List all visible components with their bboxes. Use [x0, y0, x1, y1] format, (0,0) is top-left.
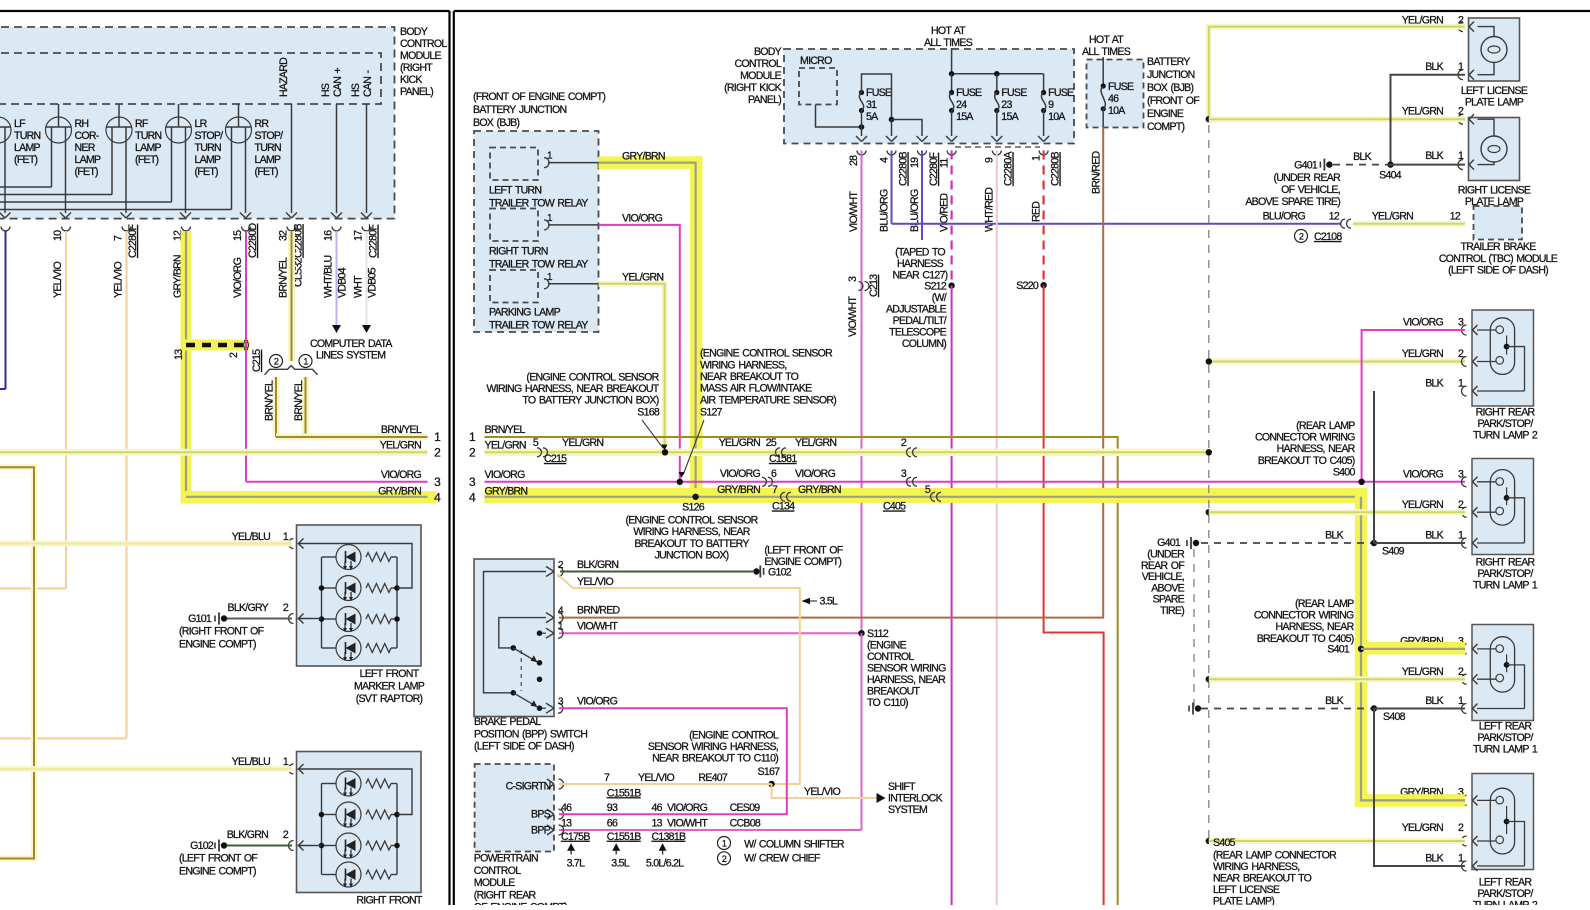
svg-text:BLK: BLK	[1325, 695, 1343, 707]
svg-text:TURN: TURN	[195, 142, 222, 154]
svg-text:12: 12	[1329, 211, 1340, 223]
svg-text:(LEFT FRONT OF: (LEFT FRONT OF	[179, 853, 258, 865]
svg-text:2: 2	[283, 602, 289, 614]
svg-text:POSITION (BPP) SWITCH: POSITION (BPP) SWITCH	[474, 728, 587, 740]
svg-text:C2280A: C2280A	[1003, 151, 1015, 186]
svg-text:3.7L: 3.7L	[567, 858, 585, 870]
svg-text:WIRING HARNESS,: WIRING HARNESS,	[1213, 861, 1299, 873]
svg-text:RIGHT REAR: RIGHT REAR	[1476, 407, 1536, 419]
svg-text:(UNDER REAR: (UNDER REAR	[1273, 172, 1341, 184]
svg-text:RIGHT LICENSE: RIGHT LICENSE	[1458, 185, 1531, 197]
svg-text:BLU/ORG: BLU/ORG	[909, 189, 921, 232]
svg-text:7: 7	[113, 235, 125, 241]
svg-text:LAMP: LAMP	[75, 154, 102, 166]
svg-text:VIO/RED: VIO/RED	[939, 193, 951, 232]
svg-text:12: 12	[1450, 211, 1461, 223]
svg-text:YEL/GRN: YEL/GRN	[485, 440, 526, 452]
svg-text:BPP: BPP	[531, 825, 551, 837]
svg-text:HARNESS, NEAR: HARNESS, NEAR	[1276, 621, 1355, 633]
svg-text:10: 10	[52, 230, 64, 241]
svg-text:MICRO: MICRO	[800, 55, 832, 67]
svg-text:VIO/ORG: VIO/ORG	[232, 257, 244, 298]
svg-text:BOX (BJB): BOX (BJB)	[1147, 82, 1193, 94]
svg-text:TURN LAMP 1: TURN LAMP 1	[1473, 580, 1538, 592]
svg-text:CES09: CES09	[730, 802, 761, 814]
svg-text:(ENGINE: (ENGINE	[867, 640, 907, 652]
svg-text:TO BATTERY JUNCTION BOX): TO BATTERY JUNCTION BOX)	[522, 395, 658, 407]
svg-text:13: 13	[561, 818, 572, 830]
svg-text:(RIGHT: (RIGHT	[400, 62, 433, 74]
svg-text:2: 2	[722, 854, 727, 864]
svg-text:WIRING HARNESS,: WIRING HARNESS,	[700, 359, 786, 371]
svg-text:ENGINE COMPT): ENGINE COMPT)	[179, 866, 256, 878]
svg-text:MODULE: MODULE	[400, 50, 442, 62]
svg-text:1: 1	[1031, 155, 1043, 161]
svg-text:VIO/ORG: VIO/ORG	[577, 696, 618, 708]
svg-text:CONTROL: CONTROL	[400, 38, 447, 50]
svg-text:PARKING LAMP: PARKING LAMP	[489, 307, 561, 319]
svg-text:BREAKOUT: BREAKOUT	[867, 686, 921, 698]
svg-text:JUNCTION: JUNCTION	[1147, 69, 1195, 81]
svg-text:STOP/: STOP/	[195, 130, 224, 142]
svg-text:1: 1	[303, 357, 308, 367]
svg-text:VDB04: VDB04	[337, 267, 349, 298]
svg-text:C405: C405	[883, 501, 906, 513]
svg-text:(ENGINE CONTROL SENSOR: (ENGINE CONTROL SENSOR	[700, 348, 833, 360]
svg-text:VIO/ORG: VIO/ORG	[485, 469, 526, 481]
svg-text:11: 11	[939, 158, 951, 168]
svg-text:YEL/VIO: YEL/VIO	[577, 576, 613, 588]
svg-text:VIO/ORG: VIO/ORG	[1403, 317, 1444, 329]
svg-text:31: 31	[866, 99, 877, 111]
svg-text:(LEFT FRONT OF: (LEFT FRONT OF	[764, 545, 843, 557]
svg-text:BRN/YEL: BRN/YEL	[293, 380, 305, 421]
svg-text:2: 2	[1458, 822, 1464, 834]
svg-text:1: 1	[1458, 150, 1464, 162]
svg-text:ENGINE COMPT): ENGINE COMPT)	[179, 639, 256, 651]
svg-text:C-SIGRTN: C-SIGRTN	[506, 781, 551, 793]
svg-text:(FET): (FET)	[14, 154, 38, 166]
svg-text:SENSOR WIRING: SENSOR WIRING	[867, 663, 946, 675]
svg-text:2: 2	[228, 352, 240, 358]
svg-text:SENSOR WIRING HARNESS,: SENSOR WIRING HARNESS,	[648, 741, 778, 753]
svg-text:(ENGINE CONTROL SENSOR: (ENGINE CONTROL SENSOR	[625, 514, 758, 526]
svg-text:BLK/GRY: BLK/GRY	[228, 602, 269, 614]
svg-text:G101: G101	[188, 613, 212, 625]
svg-text:LAMP: LAMP	[255, 154, 282, 166]
svg-text:2: 2	[1458, 348, 1464, 360]
svg-text:15: 15	[232, 230, 244, 241]
svg-text:(FRONT OF ENGINE COMPT): (FRONT OF ENGINE COMPT)	[473, 91, 605, 103]
svg-text:YEL/GRN: YEL/GRN	[1372, 211, 1413, 223]
svg-text:LEFT TURN: LEFT TURN	[489, 185, 541, 197]
svg-text:BREAKOUT TO C405): BREAKOUT TO C405)	[1258, 455, 1355, 467]
svg-text:VIO/WHT: VIO/WHT	[667, 818, 708, 830]
svg-text:5.0L/6.2L: 5.0L/6.2L	[646, 858, 684, 870]
svg-text:(RIGHT KICK: (RIGHT KICK	[724, 82, 782, 94]
svg-text:BODY: BODY	[400, 26, 428, 38]
svg-text:2: 2	[901, 437, 907, 449]
svg-text:17: 17	[353, 230, 365, 241]
svg-text:C2280F: C2280F	[368, 224, 380, 258]
svg-text:(FET): (FET)	[135, 154, 159, 166]
svg-text:SYSTEM: SYSTEM	[888, 804, 927, 816]
svg-text:BLK: BLK	[1325, 530, 1343, 542]
svg-text:24: 24	[956, 99, 967, 111]
svg-text:ALL TIMES: ALL TIMES	[924, 37, 973, 49]
svg-text:G102: G102	[190, 840, 214, 852]
svg-text:CCB08: CCB08	[730, 818, 761, 830]
svg-text:(ENGINE CONTROL: (ENGINE CONTROL	[689, 730, 779, 742]
svg-text:ALL TIMES: ALL TIMES	[1082, 46, 1131, 58]
svg-text:TRAILER TOW RELAY: TRAILER TOW RELAY	[489, 198, 588, 210]
svg-text:NEAR BREAKOUT TO: NEAR BREAKOUT TO	[700, 371, 799, 383]
svg-text:19: 19	[909, 157, 921, 168]
svg-text:C1381B: C1381B	[652, 831, 686, 843]
svg-text:NER: NER	[75, 142, 96, 154]
svg-text:YEL/GRN: YEL/GRN	[622, 272, 663, 284]
svg-text:POWERTRAIN: POWERTRAIN	[474, 853, 538, 865]
svg-text:9: 9	[984, 157, 996, 163]
svg-text:G401: G401	[1294, 160, 1318, 172]
svg-text:TIRE): TIRE)	[1160, 605, 1184, 617]
svg-text:BLK: BLK	[1425, 150, 1443, 162]
svg-text:LAMP: LAMP	[195, 154, 222, 166]
svg-text:HAZARD: HAZARD	[278, 57, 290, 97]
svg-text:PLATE LAMP: PLATE LAMP	[1465, 97, 1524, 109]
svg-text:C2280B: C2280B	[1050, 152, 1062, 186]
svg-text:GRY/BRN: GRY/BRN	[622, 151, 665, 163]
svg-text:1: 1	[1458, 853, 1464, 865]
svg-text:MASS AIR FLOW/INTAKE: MASS AIR FLOW/INTAKE	[700, 383, 812, 395]
svg-text:C213: C213	[868, 274, 880, 297]
svg-text:RIGHT TURN: RIGHT TURN	[489, 246, 548, 258]
svg-text:PEDAL/TILT/: PEDAL/TILT/	[893, 315, 947, 327]
svg-text:(FRONT OF: (FRONT OF	[1147, 95, 1200, 107]
svg-text:WHT/BLU: WHT/BLU	[323, 255, 335, 298]
svg-text:13: 13	[652, 818, 663, 830]
svg-text:FUSE: FUSE	[956, 87, 982, 99]
svg-text:(TAPED TO: (TAPED TO	[895, 247, 945, 259]
svg-text:46: 46	[1108, 93, 1119, 105]
svg-text:3: 3	[847, 276, 859, 282]
svg-text:YEL/VIO: YEL/VIO	[804, 786, 840, 798]
svg-text:PLATE LAMP): PLATE LAMP)	[1213, 896, 1274, 906]
svg-text:BLK: BLK	[1425, 61, 1443, 73]
svg-text:CONTROL (TBC) MODULE: CONTROL (TBC) MODULE	[1439, 253, 1558, 265]
svg-text:SHIFT: SHIFT	[888, 781, 916, 793]
svg-text:GRY/BRN: GRY/BRN	[717, 484, 760, 496]
svg-text:S405: S405	[1213, 837, 1236, 849]
svg-text:TRAILER BRAKE: TRAILER BRAKE	[1460, 241, 1536, 253]
svg-text:BATTERY: BATTERY	[1147, 56, 1190, 68]
svg-text:(FET): (FET)	[75, 166, 99, 178]
svg-text:BRN/RED: BRN/RED	[577, 605, 621, 617]
svg-text:23: 23	[1001, 99, 1012, 111]
svg-text:LAMP: LAMP	[14, 142, 41, 154]
svg-text:C134: C134	[772, 501, 795, 513]
svg-text:BLK: BLK	[1425, 378, 1443, 390]
svg-text:VIO/ORG: VIO/ORG	[622, 213, 663, 225]
svg-text:7: 7	[604, 772, 610, 784]
svg-text:13: 13	[173, 349, 185, 360]
svg-text:BLK/GRN: BLK/GRN	[227, 829, 268, 841]
svg-text:3: 3	[1458, 469, 1464, 481]
svg-text:VIO/WHT: VIO/WHT	[848, 191, 860, 232]
svg-text:10A: 10A	[1048, 111, 1066, 123]
svg-text:(FET): (FET)	[195, 166, 219, 178]
svg-text:TO C110): TO C110)	[867, 697, 908, 709]
svg-text:CONTROL: CONTROL	[867, 651, 914, 663]
svg-text:YEL/VIO: YEL/VIO	[113, 262, 125, 298]
svg-text:BLU/ORG: BLU/ORG	[1263, 211, 1306, 223]
svg-text:NEAR BREAKOUT TO C110): NEAR BREAKOUT TO C110)	[652, 753, 778, 765]
svg-text:3.5L: 3.5L	[611, 858, 629, 870]
svg-text:KICK: KICK	[400, 74, 422, 86]
svg-text:S126: S126	[682, 502, 705, 514]
svg-text:NEAR BREAKOUT TO: NEAR BREAKOUT TO	[1213, 873, 1312, 885]
svg-text:HOT AT: HOT AT	[931, 25, 966, 37]
svg-text:LEFT REAR: LEFT REAR	[1479, 877, 1533, 889]
svg-text:ENGINE: ENGINE	[1147, 108, 1184, 120]
svg-text:RIGHT REAR: RIGHT REAR	[1476, 557, 1536, 569]
svg-text:S401: S401	[1327, 643, 1350, 655]
svg-text:HOT AT: HOT AT	[1089, 34, 1124, 46]
svg-text:G102: G102	[768, 566, 792, 578]
svg-text:(REAR LAMP CONNECTOR: (REAR LAMP CONNECTOR	[1213, 850, 1337, 862]
svg-text:GRY/BRN: GRY/BRN	[798, 484, 841, 496]
svg-text:TRAILER TOW RELAY: TRAILER TOW RELAY	[489, 320, 588, 332]
svg-text:VEHICLE,: VEHICLE,	[1142, 571, 1184, 583]
svg-text:HS: HS	[350, 83, 362, 97]
svg-text:BLK: BLK	[1425, 853, 1443, 865]
svg-text:C1581: C1581	[769, 453, 797, 465]
svg-text:LEFT FRONT: LEFT FRONT	[360, 668, 420, 680]
svg-text:CAN -: CAN -	[362, 69, 374, 97]
svg-text:2: 2	[1299, 232, 1304, 242]
svg-text:WIRING HARNESS, NEAR: WIRING HARNESS, NEAR	[633, 526, 750, 538]
svg-text:BRAKE PEDAL: BRAKE PEDAL	[474, 716, 541, 728]
svg-text:CONNECTOR WIRING: CONNECTOR WIRING	[1254, 610, 1354, 622]
svg-text:5: 5	[925, 484, 931, 496]
svg-text:WHT/RED: WHT/RED	[984, 187, 996, 232]
svg-text:GRY/BRN: GRY/BRN	[485, 485, 528, 497]
svg-text:S127: S127	[700, 406, 723, 418]
svg-text:28: 28	[848, 155, 860, 166]
svg-text:BPS: BPS	[531, 809, 551, 821]
svg-text:G401: G401	[1157, 537, 1181, 549]
svg-text:BATTERY JUNCTION: BATTERY JUNCTION	[473, 104, 566, 116]
svg-text:2: 2	[283, 829, 289, 841]
svg-text:OF VEHICLE,: OF VEHICLE,	[1281, 184, 1340, 196]
svg-text:INTERLOCK: INTERLOCK	[888, 793, 943, 805]
svg-text:1: 1	[1458, 695, 1464, 707]
svg-text:3: 3	[901, 468, 907, 480]
svg-text:VIO/WHT: VIO/WHT	[847, 296, 859, 337]
svg-text:YEL/GRN: YEL/GRN	[562, 437, 603, 449]
svg-text:MODULE: MODULE	[740, 70, 782, 82]
svg-text:REAR OF: REAR OF	[1141, 560, 1185, 572]
svg-text:1: 1	[1458, 378, 1464, 390]
svg-text:BLK: BLK	[1353, 151, 1371, 163]
svg-text:YEL/GRN: YEL/GRN	[1402, 822, 1443, 834]
svg-text:RF: RF	[135, 118, 149, 130]
svg-text:CONNECTOR WIRING: CONNECTOR WIRING	[1255, 432, 1355, 444]
svg-text:C1551B: C1551B	[607, 787, 641, 799]
svg-text:VIO/ORG: VIO/ORG	[795, 468, 836, 480]
svg-text:VIO/ORG: VIO/ORG	[1403, 469, 1444, 481]
svg-text:LAMP: LAMP	[135, 142, 162, 154]
svg-text:(W/: (W/	[932, 292, 947, 304]
svg-text:S168: S168	[637, 406, 660, 418]
svg-text:YEL/GRN: YEL/GRN	[795, 437, 836, 449]
svg-text:VDB05: VDB05	[367, 267, 379, 298]
svg-text:YEL/VIO: YEL/VIO	[638, 772, 674, 784]
svg-text:TURN: TURN	[255, 142, 282, 154]
svg-text:66: 66	[607, 818, 618, 830]
svg-text:CONTROL: CONTROL	[474, 865, 521, 877]
svg-text:FUSE: FUSE	[1108, 81, 1134, 93]
svg-text:2: 2	[1458, 106, 1464, 118]
svg-text:MARKER LAMP: MARKER LAMP	[354, 681, 425, 693]
svg-text:BLK/GRN: BLK/GRN	[577, 559, 618, 571]
svg-text:15A: 15A	[1001, 111, 1019, 123]
svg-text:C2280F: C2280F	[127, 224, 139, 258]
svg-text:CAN +: CAN +	[332, 67, 344, 97]
svg-text:TURN LAMP 2: TURN LAMP 2	[1473, 430, 1538, 442]
svg-text:HARNESS, NEAR: HARNESS, NEAR	[867, 674, 946, 686]
svg-text:LEFT REAR: LEFT REAR	[1479, 721, 1533, 733]
svg-text:TURN LAMP 1: TURN LAMP 1	[1473, 744, 1538, 756]
svg-text:(FET): (FET)	[255, 166, 279, 178]
svg-text:S409: S409	[1382, 546, 1405, 558]
svg-text:BLK: BLK	[1425, 695, 1443, 707]
svg-text:S212: S212	[924, 281, 947, 293]
svg-text:(SVT RAPTOR): (SVT RAPTOR)	[356, 693, 423, 705]
svg-text:HARNESS, NEAR: HARNESS, NEAR	[1277, 443, 1356, 455]
svg-text:(ENGINE CONTROL SENSOR: (ENGINE CONTROL SENSOR	[526, 371, 659, 383]
svg-text:RE407: RE407	[698, 772, 727, 784]
svg-text:FUSE: FUSE	[1001, 87, 1027, 99]
svg-text:PARK/STOP/: PARK/STOP/	[1477, 568, 1533, 580]
svg-text:BLU/ORG: BLU/ORG	[879, 189, 891, 232]
svg-text:S112: S112	[867, 628, 889, 640]
svg-text:C2108: C2108	[1314, 231, 1342, 243]
svg-text:(UNDER: (UNDER	[1147, 549, 1185, 561]
svg-text:LINES SYSTEM: LINES SYSTEM	[316, 350, 385, 362]
svg-text:COMPUTER DATA: COMPUTER DATA	[310, 338, 393, 350]
svg-text:25: 25	[766, 437, 777, 449]
svg-text:15A: 15A	[956, 111, 974, 123]
svg-text:COMPT): COMPT)	[1147, 121, 1185, 133]
svg-text:ABOVE SPARE TIRE): ABOVE SPARE TIRE)	[1245, 196, 1340, 208]
svg-text:YEL/GRN: YEL/GRN	[1402, 106, 1443, 118]
svg-text:LF: LF	[14, 118, 26, 130]
svg-text:W/ CREW CHIEF: W/ CREW CHIEF	[744, 853, 821, 865]
svg-text:46: 46	[652, 802, 663, 814]
svg-text:(LEFT SIDE OF DASH): (LEFT SIDE OF DASH)	[474, 741, 574, 753]
svg-text:PANEL): PANEL)	[748, 94, 781, 106]
svg-text:VIO/WHT: VIO/WHT	[577, 621, 618, 633]
svg-text:(RIGHT REAR: (RIGHT REAR	[474, 889, 537, 901]
svg-text:7: 7	[772, 484, 778, 496]
svg-text:RH: RH	[75, 118, 89, 130]
svg-text:YEL/VIO: YEL/VIO	[52, 262, 64, 298]
svg-text:6: 6	[771, 468, 777, 480]
svg-text:VIO/ORG: VIO/ORG	[720, 468, 761, 480]
svg-text:AIR TEMPERATURE SENSOR): AIR TEMPERATURE SENSOR)	[700, 394, 836, 406]
svg-text:BOX (BJB): BOX (BJB)	[473, 117, 519, 129]
svg-text:VIO/ORG: VIO/ORG	[667, 802, 708, 814]
svg-text:YEL/GRN: YEL/GRN	[719, 437, 760, 449]
svg-text:ABOVE: ABOVE	[1151, 582, 1184, 594]
svg-text:BRN/RED: BRN/RED	[1091, 150, 1103, 194]
svg-text:PARK/STOP/: PARK/STOP/	[1477, 418, 1533, 430]
svg-text:BRN/YEL: BRN/YEL	[485, 424, 526, 436]
svg-text:S220: S220	[1016, 280, 1039, 292]
svg-text:COLUMN): COLUMN)	[902, 338, 946, 350]
svg-text:TRAILER TOW RELAY: TRAILER TOW RELAY	[489, 259, 588, 271]
svg-text:4: 4	[879, 157, 891, 163]
svg-text:TURN: TURN	[14, 130, 41, 142]
svg-text:C215: C215	[251, 349, 263, 372]
svg-text:PANEL): PANEL)	[400, 86, 433, 98]
svg-text:32: 32	[278, 230, 290, 241]
svg-text:PARK/STOP/: PARK/STOP/	[1477, 732, 1533, 744]
svg-text:(REAR LAMP: (REAR LAMP	[1295, 598, 1354, 610]
svg-text:C175B: C175B	[561, 831, 590, 843]
svg-text:1: 1	[722, 839, 727, 849]
svg-text:BREAKOUT TO BATTERY: BREAKOUT TO BATTERY	[634, 538, 749, 550]
svg-text:PARK/STOP/: PARK/STOP/	[1477, 888, 1533, 900]
svg-text:FUSE: FUSE	[866, 87, 892, 99]
svg-text:3: 3	[1458, 317, 1464, 329]
svg-text:STOP/: STOP/	[255, 130, 284, 142]
svg-text:LEFT LICENSE: LEFT LICENSE	[1213, 884, 1280, 896]
svg-text:C2280D: C2280D	[247, 223, 259, 258]
svg-text:1: 1	[1458, 530, 1464, 542]
svg-text:RR: RR	[255, 118, 270, 130]
svg-text:16: 16	[323, 230, 335, 241]
svg-text:COR-: COR-	[75, 130, 100, 142]
svg-text:TURN LAMP 2: TURN LAMP 2	[1473, 900, 1538, 906]
svg-text:93: 93	[607, 802, 618, 814]
svg-text:HS: HS	[320, 83, 332, 97]
svg-text:WHT: WHT	[353, 275, 365, 298]
svg-text:RIGHT FRONT: RIGHT FRONT	[356, 895, 422, 906]
svg-text:C215: C215	[544, 453, 567, 465]
svg-text:TELESCOPE: TELESCOPE	[889, 327, 947, 339]
svg-text:S400: S400	[1333, 467, 1356, 479]
svg-text:TURN: TURN	[135, 130, 162, 142]
svg-text:MODULE: MODULE	[474, 877, 516, 889]
svg-text:RED: RED	[1031, 201, 1043, 222]
svg-text:9: 9	[1048, 99, 1054, 111]
svg-text:C2280B: C2280B	[898, 152, 910, 186]
svg-text:C1551B: C1551B	[607, 831, 641, 843]
svg-text:2: 2	[274, 357, 279, 367]
svg-text:1: 1	[1458, 61, 1464, 73]
svg-text:(RIGHT FRONT OF: (RIGHT FRONT OF	[179, 626, 265, 638]
svg-text:S408: S408	[1383, 711, 1406, 723]
svg-text:VIO/ORG: VIO/ORG	[381, 469, 422, 481]
svg-text:46: 46	[561, 802, 572, 814]
svg-text:(LEFT SIDE OF DASH): (LEFT SIDE OF DASH)	[1448, 265, 1548, 277]
svg-text:CONTROL: CONTROL	[734, 58, 781, 70]
svg-text:(REAR LAMP: (REAR LAMP	[1296, 420, 1355, 432]
svg-text:S404: S404	[1379, 170, 1402, 182]
svg-text:YEL/GRN: YEL/GRN	[1402, 348, 1443, 360]
